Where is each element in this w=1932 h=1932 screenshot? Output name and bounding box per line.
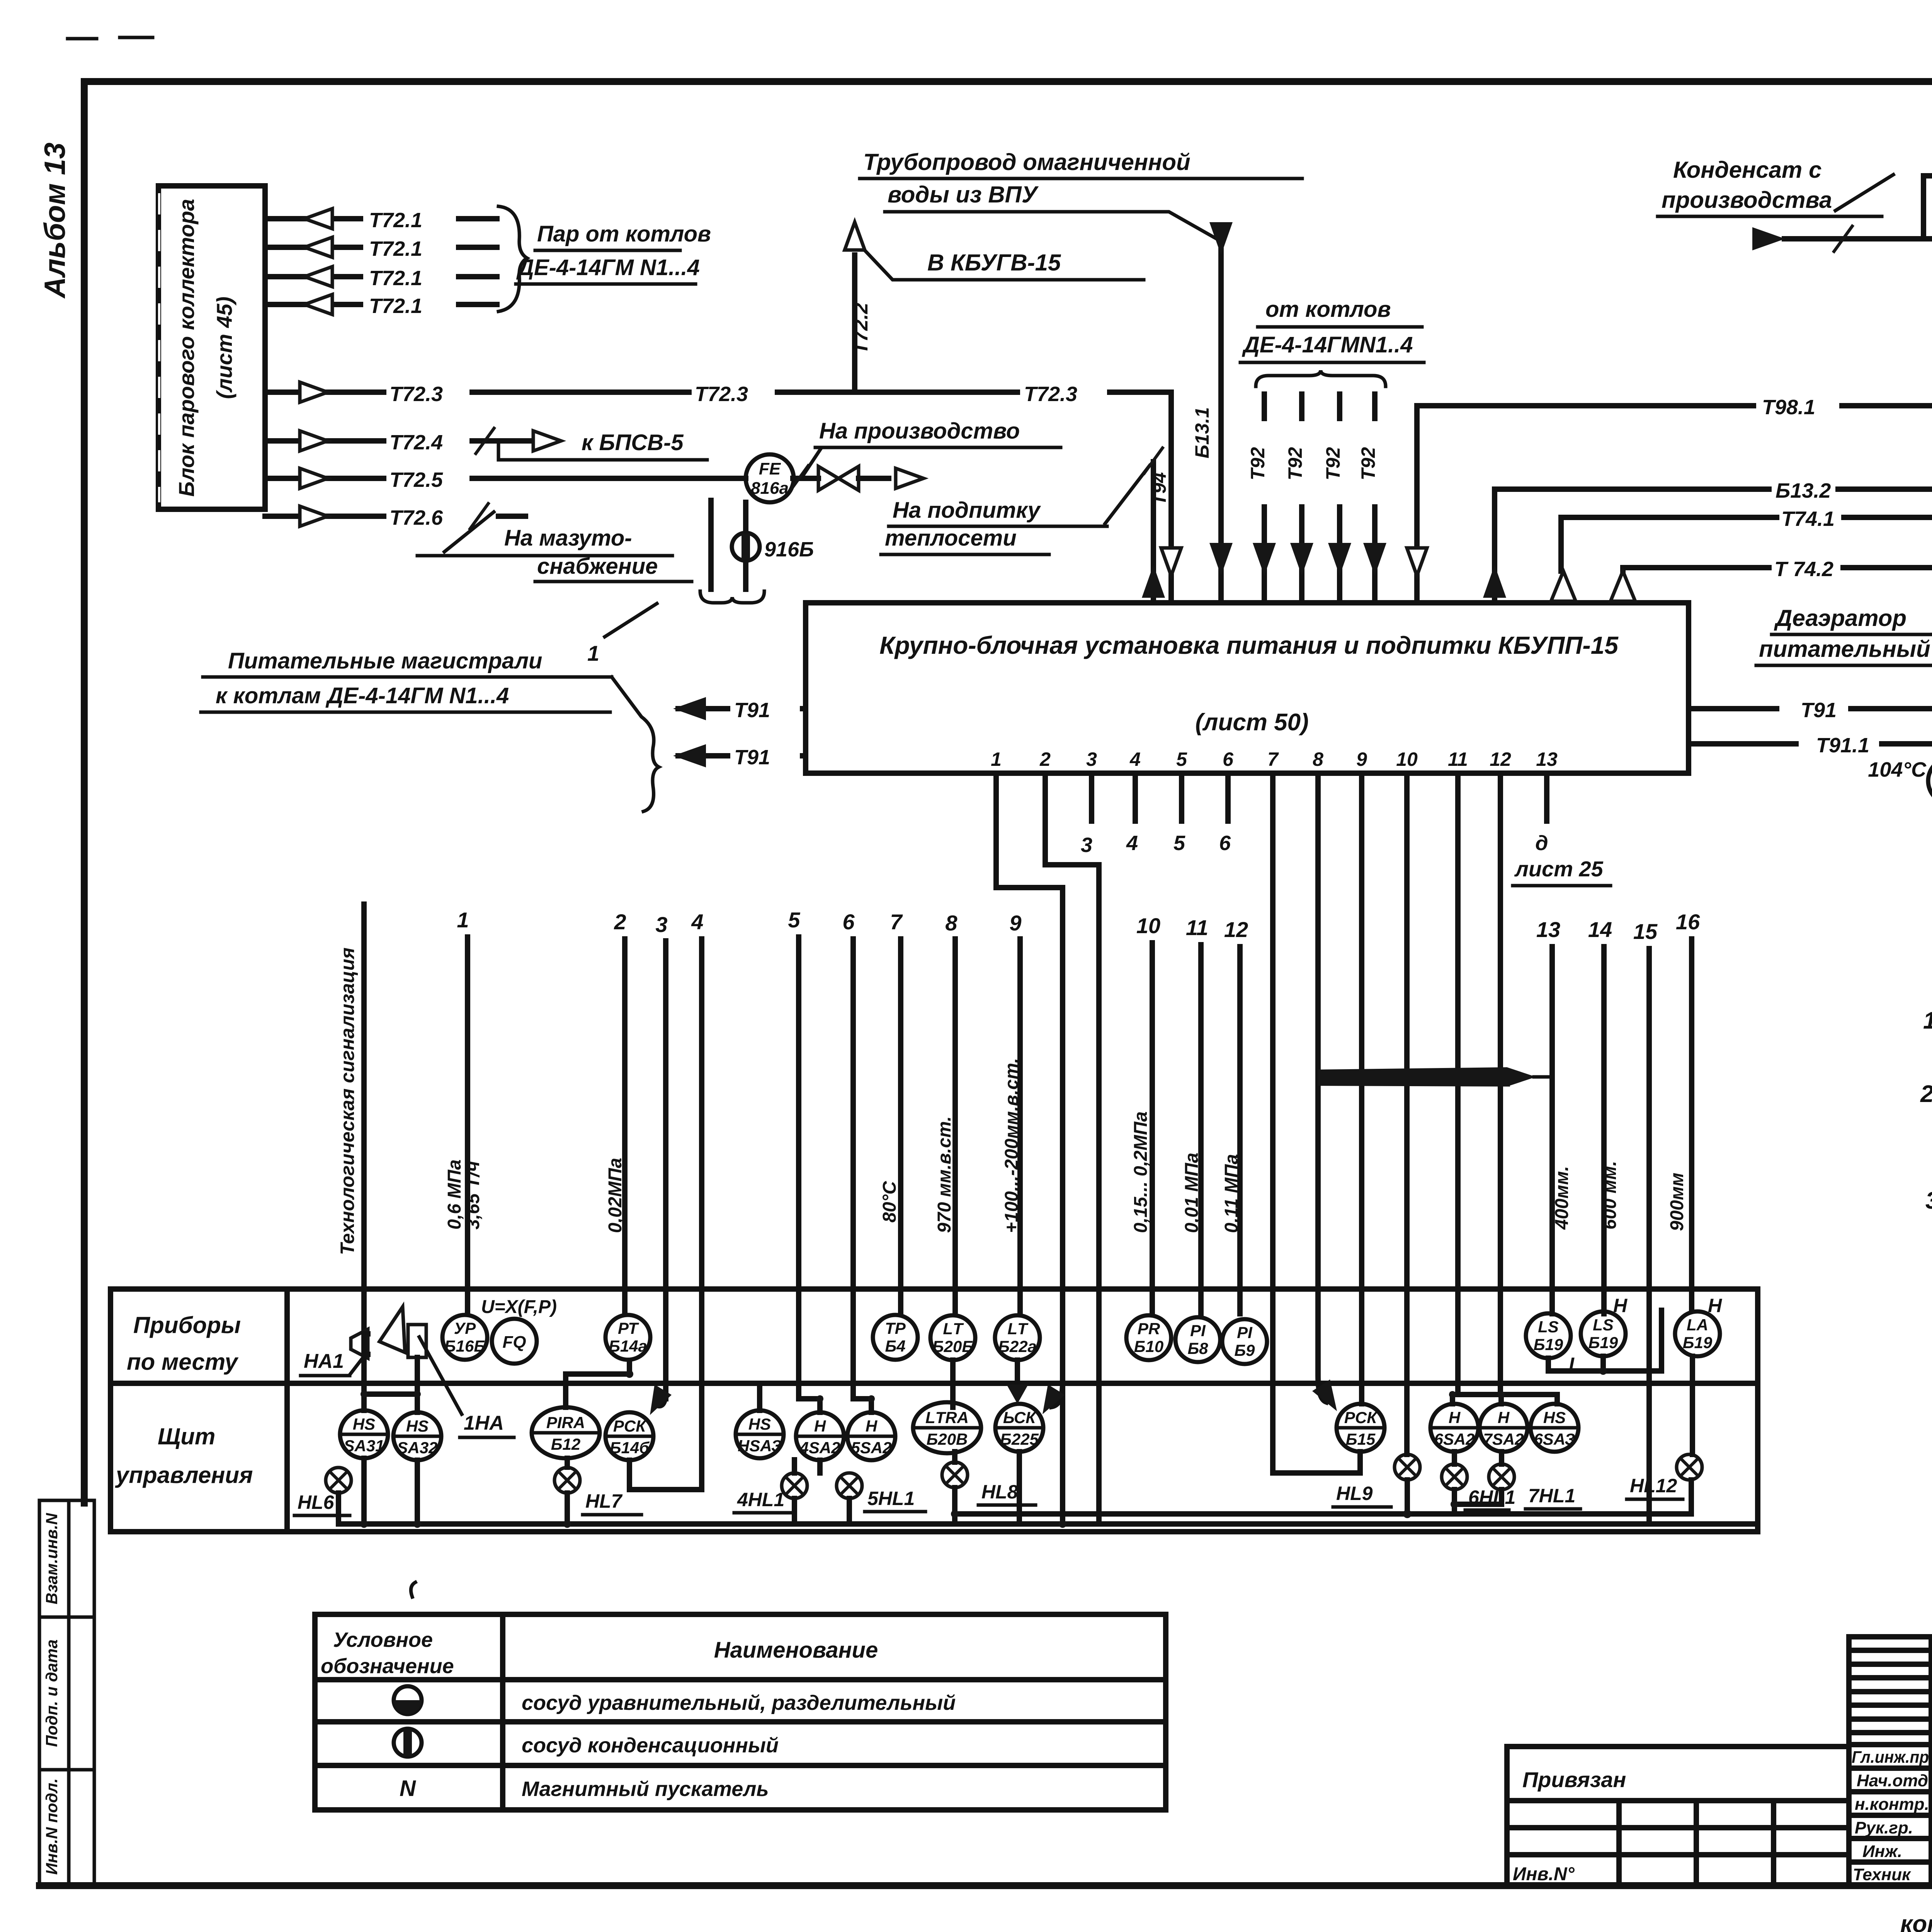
svg-text:LS: LS (1593, 1316, 1614, 1334)
svg-text:Магнитный пускатель: Магнитный пускатель (522, 1777, 769, 1801)
svg-text:15: 15 (1633, 919, 1658, 944)
svg-text:6SАЗ: 6SАЗ (1534, 1430, 1575, 1448)
svg-text:Т92: Т92 (1247, 447, 1269, 480)
svg-text:Подп. и дата: Подп. и дата (43, 1639, 61, 1747)
svg-text:Б19: Б19 (1588, 1333, 1618, 1352)
svg-text:питательный: питательный (1759, 636, 1930, 662)
svg-text:Б19: Б19 (1534, 1335, 1563, 1354)
svg-text:Б15: Б15 (1346, 1430, 1376, 1448)
svg-text:Б13.2: Б13.2 (1776, 479, 1831, 502)
svg-text:Б8: Б8 (1187, 1339, 1208, 1357)
svg-text:6: 6 (842, 910, 855, 934)
svg-text:Привязан: Привязан (1522, 1767, 1626, 1792)
svg-text:Т92: Т92 (1322, 447, 1344, 480)
svg-text:Рук.гр.: Рук.гр. (1855, 1818, 1913, 1837)
svg-text:10: 10 (1396, 748, 1418, 770)
svg-text:РI: РI (1190, 1321, 1206, 1340)
svg-text:Т92: Т92 (1284, 447, 1306, 480)
svg-text:Щит: Щит (158, 1423, 215, 1449)
svg-text:8: 8 (945, 911, 957, 935)
svg-text:Б20Б: Б20Б (932, 1337, 973, 1355)
svg-text:Конденсат с: Конденсат с (1673, 157, 1821, 183)
svg-text:ДЕ-4-14ГМN1..4: ДЕ-4-14ГМN1..4 (1242, 332, 1413, 357)
svg-text:5: 5 (1176, 748, 1187, 770)
svg-text:1: 1 (587, 641, 599, 665)
svg-text:0,02МПа: 0,02МПа (605, 1158, 626, 1233)
svg-text:Б22а: Б22а (998, 1337, 1037, 1355)
svg-text:Т91: Т91 (734, 746, 770, 769)
svg-text:Крупно-блочная установка пита: Крупно-блочная установка питания и подпи… (879, 631, 1619, 659)
svg-text:SА32: SА32 (397, 1439, 437, 1457)
svg-text:Б19: Б19 (1683, 1333, 1713, 1352)
svg-text:Б225: Б225 (1000, 1430, 1039, 1448)
svg-text:1НА: 1НА (464, 1412, 504, 1434)
svg-text:Приборы: Приборы (133, 1312, 241, 1338)
svg-text:5: 5 (788, 908, 800, 932)
svg-text:Трубопровод омагниченной: Трубопровод омагниченной (863, 149, 1190, 175)
svg-text:Пар от котлов: Пар от котлов (537, 221, 711, 247)
svg-text:Т72.3: Т72.3 (1024, 383, 1077, 406)
svg-text:3,65 Т/ч: 3,65 Т/ч (463, 1161, 483, 1230)
svg-text:Т72.1: Т72.1 (369, 237, 422, 260)
svg-text:LА: LА (1687, 1316, 1708, 1334)
svg-text:Деаэратор: Деаэратор (1774, 605, 1906, 631)
svg-text:10: 10 (1136, 913, 1160, 938)
svg-text:Н: Н (1613, 1295, 1628, 1316)
svg-text:д: д (1535, 832, 1548, 855)
svg-text:Т72.3: Т72.3 (389, 383, 443, 406)
svg-text:13: 13 (1536, 917, 1560, 942)
svg-text:6: 6 (1219, 832, 1231, 855)
svg-text:воды из ВПУ: воды из ВПУ (888, 182, 1039, 207)
svg-text:НS: НS (406, 1417, 429, 1435)
svg-text:Т72.4: Т72.4 (389, 431, 443, 454)
svg-text:3: 3 (1086, 748, 1097, 770)
svg-text:Т72.1: Т72.1 (369, 294, 422, 318)
svg-text:теплосети: теплосети (885, 526, 1017, 551)
svg-text:Н: Н (1708, 1295, 1722, 1316)
svg-text:НL9: НL9 (1336, 1483, 1373, 1504)
svg-text:Н: Н (866, 1417, 878, 1435)
svg-text:LТRА: LТRА (925, 1408, 969, 1427)
svg-text:Б14а: Б14а (609, 1337, 647, 1355)
svg-text:На подпитку: На подпитку (893, 498, 1041, 523)
svg-text:2: 2 (1039, 748, 1051, 770)
svg-text:Т94: Т94 (1148, 472, 1170, 505)
svg-text:НS: НS (748, 1415, 771, 1433)
svg-text:сосуд уравнительный, разделит: сосуд уравнительный, разделительный (522, 1691, 956, 1714)
svg-text:Б16Б: Б16Б (444, 1337, 485, 1355)
svg-text:Инв.N°: Инв.N° (1513, 1864, 1575, 1884)
svg-text:Гл.инж.пр: Гл.инж.пр (1852, 1748, 1929, 1767)
svg-text:Нач.отд: Нач.отд (1857, 1771, 1928, 1790)
svg-text:4: 4 (691, 910, 703, 934)
svg-text:Т98.1: Т98.1 (1762, 396, 1815, 419)
svg-text:FЕ: FЕ (759, 459, 781, 478)
svg-text:6: 6 (1223, 748, 1234, 770)
svg-text:916Б: 916Б (764, 538, 814, 561)
svg-text:3: 3 (655, 912, 667, 937)
svg-text:4: 4 (1126, 832, 1138, 855)
svg-text:Б10: Б10 (1134, 1337, 1163, 1355)
svg-text:LS: LS (1538, 1318, 1559, 1336)
svg-text:2: 2 (614, 910, 626, 934)
svg-text:2.Условные обозначения трубо: 2.Условные обозначения трубопроводов см. (1920, 1081, 1932, 1107)
svg-text:4: 4 (1129, 748, 1141, 770)
svg-text:снабжение: снабжение (537, 554, 658, 579)
svg-text:5: 5 (1173, 832, 1185, 855)
svg-text:от котлов: от котлов (1265, 297, 1391, 322)
svg-text:5SА2: 5SА2 (851, 1439, 891, 1457)
svg-text:816а: 816а (751, 479, 789, 498)
svg-text:N: N (400, 1776, 416, 1801)
svg-text:1: 1 (457, 908, 469, 932)
svg-text:7: 7 (890, 910, 903, 934)
svg-text:600 мм.: 600 мм. (1600, 1161, 1620, 1230)
svg-text:900мм: 900мм (1667, 1173, 1687, 1231)
svg-text:Т 74.2: Т 74.2 (1774, 558, 1833, 581)
svg-text:Технологическая сигнализация: Технологическая сигнализация (337, 947, 358, 1255)
svg-text:Б12: Б12 (551, 1435, 580, 1453)
svg-text:НL12: НL12 (1630, 1475, 1677, 1497)
svg-text:11: 11 (1448, 748, 1468, 770)
svg-text:управления: управления (115, 1462, 253, 1488)
svg-text:Инв.N подл.: Инв.N подл. (43, 1778, 61, 1875)
svg-text:LТ: LТ (1007, 1320, 1029, 1338)
svg-text:Т91: Т91 (1801, 699, 1837, 722)
svg-text:7НL1: 7НL1 (1528, 1485, 1575, 1507)
svg-text:14: 14 (1588, 917, 1612, 942)
svg-text:0,11 МПа: 0,11 МПа (1221, 1154, 1242, 1233)
svg-text:Б13.1: Б13.1 (1191, 407, 1213, 459)
svg-text:U=X(F,Р): U=X(F,Р) (481, 1297, 557, 1317)
svg-text:лист 25: лист 25 (1514, 857, 1604, 881)
svg-text:н.контр.: н.контр. (1855, 1795, 1929, 1814)
svg-text:НL8: НL8 (981, 1481, 1018, 1503)
svg-text:РI: РI (1237, 1323, 1253, 1342)
svg-text:РТ: РТ (618, 1319, 639, 1337)
svg-text:8: 8 (1313, 748, 1323, 770)
svg-text:Инж.: Инж. (1862, 1842, 1902, 1861)
svg-text:Б14б: Б14б (610, 1439, 650, 1457)
svg-text:ТР: ТР (885, 1319, 906, 1337)
svg-text:На мазуто-: На мазуто- (504, 526, 632, 551)
svg-text:сосуд конденсационный: сосуд конденсационный (522, 1734, 779, 1757)
svg-text:3: 3 (1081, 833, 1092, 857)
svg-text:НSАЗ: НSАЗ (738, 1437, 782, 1455)
svg-text:обозначение: обозначение (321, 1655, 454, 1678)
svg-text:Взам.инв.N: Взам.инв.N (43, 1512, 61, 1604)
svg-text:Т72.5: Т72.5 (389, 468, 443, 492)
svg-text:Б4: Б4 (885, 1337, 905, 1355)
svg-text:Альбом 13: Альбом 13 (39, 143, 71, 299)
svg-text:9: 9 (1356, 748, 1367, 770)
svg-text:12: 12 (1490, 748, 1511, 770)
svg-text:0,15... 0,2МПа: 0,15... 0,2МПа (1131, 1111, 1151, 1233)
svg-text:Н: Н (1449, 1408, 1461, 1427)
svg-text:Т92: Т92 (1357, 447, 1379, 480)
svg-text:к БПСВ-5: к БПСВ-5 (582, 430, 684, 455)
svg-text:SА31: SА31 (344, 1437, 384, 1455)
svg-text:РIRА: РIRА (546, 1413, 585, 1432)
svg-text:НА1: НА1 (304, 1350, 344, 1372)
svg-text:400мм.: 400мм. (1552, 1166, 1572, 1230)
svg-text:Н: Н (814, 1417, 827, 1435)
svg-text:Т74.1: Т74.1 (1781, 507, 1835, 531)
svg-text:Наименование: Наименование (714, 1638, 878, 1663)
svg-text:Т72.1: Т72.1 (369, 209, 422, 232)
svg-text:На производство: На производство (819, 418, 1020, 444)
svg-text:7: 7 (1267, 748, 1279, 770)
svg-text:производства: производства (1662, 187, 1832, 213)
svg-text:FQ: FQ (502, 1333, 526, 1352)
svg-text:Т72.2: Т72.2 (850, 303, 872, 354)
svg-text:4SА2: 4SА2 (799, 1439, 840, 1457)
svg-text:13: 13 (1536, 748, 1558, 770)
svg-text:ЬСК: ЬСК (1003, 1408, 1037, 1427)
svg-text:по месту: по месту (127, 1349, 239, 1375)
svg-text:11: 11 (1186, 915, 1208, 940)
svg-text:6SА2: 6SА2 (1434, 1430, 1475, 1448)
svg-text:LТ: LТ (943, 1320, 964, 1338)
svg-text:104°С: 104°С (1868, 758, 1927, 781)
svg-text:РСК: РСК (1344, 1408, 1378, 1427)
svg-text:РR: РR (1138, 1320, 1160, 1338)
svg-text:Т91: Т91 (734, 699, 770, 722)
svg-text:Т72.3: Т72.3 (695, 383, 748, 406)
svg-text:9: 9 (1009, 911, 1021, 935)
svg-text:5НL1: 5НL1 (867, 1488, 915, 1509)
svg-text:НL6: НL6 (298, 1492, 335, 1513)
svg-text:(лист 50): (лист 50) (1195, 709, 1309, 736)
svg-text:УР: УР (454, 1319, 476, 1337)
svg-text:80°С: 80°С (879, 1180, 900, 1223)
svg-text:0,6 МПа: 0,6 МПа (444, 1160, 465, 1230)
svg-text:НS: НS (1543, 1408, 1566, 1427)
svg-text:7SА2: 7SА2 (1483, 1430, 1524, 1448)
svg-text:Блок парового коллектора: Блок парового коллектора (174, 199, 199, 497)
svg-text:(лист 45): (лист 45) (212, 296, 236, 399)
svg-text:РСК: РСК (613, 1417, 647, 1435)
svg-text:Т72.1: Т72.1 (369, 267, 422, 290)
svg-text:+100...-200мм.в.ст.: +100...-200мм.в.ст. (1002, 1058, 1022, 1233)
svg-text:1: 1 (991, 748, 1002, 770)
svg-text:970 мм.в.ст.: 970 мм.в.ст. (934, 1116, 955, 1233)
svg-text:к котлам ДЕ-4-14ГМ N1...4: к котлам ДЕ-4-14ГМ N1...4 (216, 683, 509, 708)
svg-text:Условное: Условное (333, 1628, 433, 1651)
svg-text:16: 16 (1676, 910, 1700, 934)
svg-text:0,01 МПа: 0,01 МПа (1182, 1153, 1202, 1233)
svg-text:Б9: Б9 (1234, 1341, 1255, 1359)
svg-text:Н: Н (1498, 1408, 1510, 1427)
svg-text:3.Аппаратура с индексом „Т"в о: 3.Аппаратура с индексом „Т"в обозначении (1925, 1187, 1932, 1214)
svg-text:4НL1: 4НL1 (737, 1489, 784, 1510)
svg-text:Б20В: Б20В (927, 1430, 968, 1448)
svg-text:В КБУГВ-15: В КБУГВ-15 (927, 250, 1061, 276)
svg-text:Питательные магистрали: Питательные магистрали (228, 648, 542, 673)
svg-text:копир.: копир. (1900, 1911, 1932, 1932)
svg-text:1.Условные обозначения прибо: 1.Условные обозначения приборов приняты (1923, 1007, 1932, 1034)
svg-text:НS: НS (353, 1415, 375, 1433)
svg-text:Т91.1: Т91.1 (1816, 734, 1869, 757)
svg-text:Т72.6: Т72.6 (389, 506, 443, 529)
svg-text:ДЕ-4-14ГМ N1...4: ДЕ-4-14ГМ N1...4 (516, 255, 700, 280)
svg-text:НL7: НL7 (585, 1490, 623, 1512)
svg-text:12: 12 (1224, 917, 1248, 942)
svg-text:Техник: Техник (1853, 1865, 1912, 1884)
